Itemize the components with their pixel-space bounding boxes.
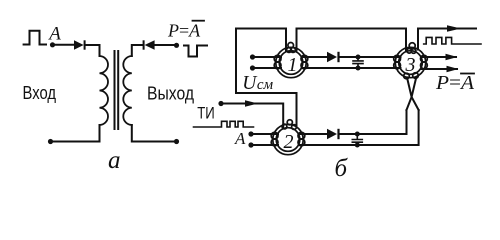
wire core1 to core3 upper with diode [302, 56, 328, 58]
svg-text:Выход: Выход [147, 83, 194, 104]
winding loops core1 top [287, 43, 296, 53]
wire diode to cap junction [340, 56, 401, 58]
wire Usm lower [253, 67, 282, 69]
wire A upper [251, 133, 278, 135]
wire core3 top winding left vertical [405, 29, 407, 52]
junction dot cap1 top [356, 55, 361, 60]
winding loops core3 top [407, 43, 416, 54]
wire secondary bottom lead [132, 125, 177, 142]
capacitor C2 [352, 134, 362, 145]
input pulse symbol [24, 31, 46, 45]
diode VD2 [143, 40, 155, 49]
output arrow upper [421, 56, 456, 58]
winding loops core3 bottom [404, 73, 419, 79]
wire primary bottom lead [51, 125, 100, 142]
terminal dot Usm lower [250, 65, 255, 70]
terminal dot Usm upper [250, 54, 255, 59]
output inverted pulse symbol [184, 46, 207, 57]
winding loops core3 right [421, 55, 428, 68]
winding loops core1 right [301, 55, 308, 68]
svg-text:P=А: P=А [167, 21, 201, 41]
svg-text:2: 2 [284, 131, 294, 153]
terminal dot bottom right [174, 139, 179, 144]
wire diode to transformer primary [86, 45, 100, 56]
winding loops core2 right [298, 132, 305, 145]
terminal dot TI [218, 101, 223, 106]
wire core2 to diode [299, 133, 328, 135]
pulse train top output [424, 37, 481, 44]
wire top rail mid segment [297, 28, 407, 30]
wire A lower [251, 144, 278, 146]
wire top rail left segment [236, 29, 297, 128]
svg-text:А: А [234, 129, 246, 148]
winding loops core2 top [282, 120, 296, 130]
svg-text:а: а [108, 147, 121, 174]
svg-text:б: б [335, 155, 349, 182]
wire core1 top winding verticals [286, 29, 297, 51]
wire cross X left-up [407, 78, 417, 111]
diode VD1 [74, 40, 86, 49]
wire core3 top right vertical and output rail [418, 29, 476, 50]
terminal dot A upper [248, 131, 253, 136]
wire diode to corner [340, 110, 407, 134]
core element U2 [273, 124, 303, 154]
wire TI line [221, 104, 283, 128]
arrowhead TI [245, 100, 258, 106]
diode VD4 [327, 129, 340, 139]
junction dot cap1 bottom [356, 66, 361, 71]
winding loops core1 left [274, 55, 281, 68]
svg-text:1: 1 [288, 54, 298, 76]
pulse train TI [194, 121, 254, 127]
wire core2 lower to corner [299, 110, 419, 145]
node dot A [50, 42, 55, 47]
core element U1 [276, 47, 306, 77]
overbar of A [193, 20, 205, 22]
diode VD3 [327, 52, 340, 62]
wire Usm upper [253, 56, 282, 58]
wire cross X right-up [407, 78, 419, 111]
wire diode to output dot [155, 44, 177, 46]
node dot output [174, 43, 179, 48]
svg-text:P=А: P=А [435, 72, 475, 94]
arrowhead top output [447, 25, 461, 32]
wire core1 to core3 lower [302, 67, 401, 69]
wire A to diode [53, 44, 75, 46]
winding loops core3 left [394, 55, 401, 68]
svg-text:Вход: Вход [23, 82, 57, 103]
terminal dot bottom left [48, 139, 53, 144]
transformer T1 secondary winding [123, 56, 132, 125]
core element U3 [395, 47, 425, 77]
transformer T1 primary winding [100, 56, 109, 125]
winding loops core2 left [271, 132, 278, 145]
svg-text:А: А [47, 24, 61, 45]
svg-text:ТИ: ТИ [197, 104, 215, 122]
capacitor C1 [353, 57, 363, 68]
overbar of A (circuit b) [461, 73, 474, 75]
junction dot cap2 bottom [355, 143, 360, 148]
wire secondary top lead [132, 45, 144, 56]
terminal dot A lower [248, 142, 253, 147]
junction dot cap2 top [355, 132, 360, 137]
output arrow lower [422, 68, 458, 70]
transformer core [115, 51, 119, 129]
svg-text:Uсм: Uсм [242, 73, 273, 94]
